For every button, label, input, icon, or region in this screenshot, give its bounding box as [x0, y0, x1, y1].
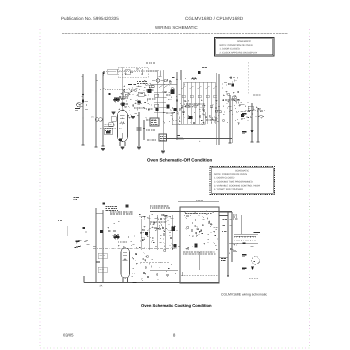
misc cluster mid-left small [144, 80, 151, 86]
footer date 03/05 [63, 333, 74, 338]
fan motor FM2 (dashed circle) [252, 257, 260, 265]
wire x228 vertical [227, 212, 229, 278]
label Bo bottom [242, 254, 247, 256]
wire bus L2 (vertical) [95, 208, 97, 282]
wire x241 vertical [240, 215, 242, 234]
label Eo upper [242, 113, 247, 115]
noise filter body (dark) [108, 93, 110, 95]
control unit interior [182, 211, 218, 276]
wire stub x230 [229, 95, 232, 143]
grill heater box GH1 [98, 253, 107, 259]
cluster verticals [147, 215, 174, 250]
chassis ground triangle 2 (dark) [251, 267, 254, 271]
wire bus E (vertical) [102, 72, 104, 146]
rail tick dark [133, 282, 137, 284]
svg-text:WIRING SCHEMATIC: WIRING SCHEMATIC [155, 26, 198, 31]
title divider rule [62, 33, 288, 35]
label magnetron (grey) [253, 94, 255, 96]
wire bus right (vertical x177) [176, 72, 178, 140]
wire stub top [159, 71, 161, 77]
relay blob bottom D [145, 232, 148, 235]
cooking cluster heavy [107, 214, 179, 251]
svg-text:2. COOKING TIME PROGRAMMED: 2. COOKING TIME PROGRAMMED [214, 181, 253, 184]
relay RY2 box [109, 117, 117, 127]
rail stub left [83, 276, 85, 283]
svg-text:4. 'START' PAD TOUCHED: 4. 'START' PAD TOUCHED [214, 188, 243, 191]
relay contact ladder RY1 [154, 70, 175, 150]
svg-text:a: a [199, 140, 200, 142]
dashed line left-bottom [140, 261, 170, 263]
wire above control box [178, 201, 219, 203]
bottom rail [84, 282, 219, 284]
dense band mid (relays area) [163, 74, 187, 124]
svg-text:2A: 2A [99, 285, 102, 288]
component blob G [156, 108, 159, 111]
component cluster interlock switches [118, 85, 152, 119]
svg-text:CGLMV168E wiring schematic: CGLMV168E wiring schematic [221, 293, 267, 297]
component blob E [148, 89, 152, 93]
wire bus N2 (vertical) [102, 210, 104, 282]
label transformer [254, 231, 261, 233]
component blob H [122, 103, 125, 107]
noise filter squiggle bottom [114, 235, 120, 238]
label row above box [150, 205, 152, 207]
svg-text:03/05: 03/05 [63, 333, 74, 338]
wire bus L (vertical) [82, 74, 84, 145]
svg-text:1. DOOR CLOSED: 1. DOOR CLOSED [220, 47, 240, 50]
fuse F1 with wire [103, 69, 145, 76]
noise filter NF box (dashed) [118, 67, 148, 78]
svg-text:SCHEMATIC: SCHEMATIC [235, 169, 249, 172]
bus feet [82, 144, 85, 146]
footer page number 8 [173, 333, 176, 338]
wire box to right lower [219, 215, 228, 217]
svg-text:NOTE: CONDITION OF OVEN: NOTE: CONDITION OF OVEN [214, 173, 247, 176]
svg-text:SCHEMATIC: SCHEMATIC [237, 40, 251, 43]
page border dots [40, 29, 310, 349]
dashed vertical right [247, 62, 249, 95]
power relay ladder bank [172, 82, 217, 125]
page title WIRING SCHEMATIC [155, 26, 198, 31]
relay blob bottom C [195, 244, 198, 248]
noise filter internals [121, 68, 142, 75]
ground G1 [112, 112, 116, 114]
wire bus x187 upper [180, 70, 182, 80]
plug P1 power cord [75, 102, 88, 111]
label Tu bottom [242, 267, 247, 269]
cord entry marks [74, 197, 76, 199]
transformer T1 secondary box [150, 118, 159, 126]
svg-text:Oven Schematic Cooking Conditi: Oven Schematic Cooking Condition [141, 304, 212, 309]
svg-text:1. DOOR CLOSED: 1. DOOR CLOSED [214, 177, 234, 180]
grill heater box GH2 [98, 267, 107, 273]
relay coil blob D [189, 116, 193, 119]
terminal column labels [221, 215, 237, 261]
schematic note box 1 (off condition) [215, 38, 275, 57]
junction blob L [82, 94, 84, 96]
ground G4 [101, 149, 105, 151]
chassis ground triangle (dark) [250, 130, 253, 134]
svg-text:3. VARIABLE COOKING CONTROL: 3. VARIABLE COOKING CONTROL 'HIGH' [214, 184, 260, 187]
bus bridge [96, 213, 103, 215]
label column left [146, 63, 174, 140]
wire fuse to filter (dashed) [117, 70, 160, 72]
tube feed wire [121, 67, 123, 110]
timer motor box TM [100, 125, 122, 134]
svg-text:Publication No. 5995420335: Publication No. 5995420335 [61, 16, 119, 21]
transformer T1 primary box [159, 134, 167, 141]
HV transformer T2 coil lower [229, 240, 258, 254]
thermal cutout TCO1 [128, 79, 177, 88]
dashes below fan [249, 277, 259, 279]
control unit box [180, 207, 219, 283]
magnetron MG2 tube [121, 248, 130, 282]
relay coil blob C [174, 108, 177, 111]
switch marks lower [150, 263, 178, 280]
relay blob bottom B [174, 244, 177, 248]
component blob F [138, 101, 141, 104]
dark component mark [126, 205, 129, 208]
dark tick bus top [102, 202, 105, 204]
tick column [230, 220, 232, 226]
ground G3 [161, 151, 165, 153]
junction dots top bus [95, 90, 96, 91]
tube side cluster [131, 252, 152, 280]
fan motor FM1 cluster [236, 105, 263, 119]
header publication number [61, 16, 119, 21]
dark blob bus [100, 230, 103, 233]
caption oven schematic off condition [147, 158, 212, 163]
label wiring schematic figure ref [221, 293, 267, 297]
top text cluster 2 [110, 211, 112, 213]
oven lamp coil X1 [91, 116, 102, 121]
wire x141 bottom [140, 219, 142, 250]
wire top y205 [150, 211, 232, 213]
component row top marks [191, 68, 232, 80]
probe wire pair [245, 103, 265, 142]
svg-text:(X): (X) [91, 116, 94, 118]
label 24 [99, 285, 102, 288]
svg-text:2. CLOCK APPEARS ON DISPLAY: 2. CLOCK APPEARS ON DISPLAY [220, 52, 258, 55]
bus tick marks [82, 75, 84, 77]
tick x109 [108, 230, 111, 232]
header model numbers [185, 16, 243, 21]
svg-text:8: 8 [173, 333, 176, 338]
label Eo lower [242, 131, 247, 133]
wire pair crossing [216, 73, 218, 145]
top label cluster [106, 206, 107, 208]
plug P2 power cord [75, 227, 97, 248]
ground G2 [131, 117, 135, 119]
interlock switch SW1 [122, 90, 134, 96]
wire rail right segment [219, 257, 228, 259]
left margin marks [66, 226, 68, 236]
HV transformer T2 coil upper [234, 234, 256, 238]
caption oven schematic cooking condition [141, 304, 212, 309]
chain line main [93, 247, 178, 249]
keypad matrix cluster [183, 99, 249, 125]
wire box to right upper [219, 211, 232, 213]
HV capacitor C1 [137, 112, 142, 149]
magnetron MG1 tube [118, 111, 128, 150]
relay blob bottom A [172, 227, 176, 232]
svg-text:CGLMV168D / CPLMV168D: CGLMV168D / CPLMV168D [185, 16, 243, 21]
svg-text:NOTE: CONDITION OF OVEN: NOTE: CONDITION OF OVEN [220, 44, 253, 47]
interlock switch SW2 [135, 92, 144, 104]
misc cluster top-mid [222, 76, 239, 143]
svg-text:Oven Schematic-Off Condition: Oven Schematic-Off Condition [147, 158, 212, 163]
wire x232 vertical [231, 212, 233, 262]
dark dash mid [96, 261, 100, 263]
schematic note box 2 (cooking condition) [210, 167, 275, 195]
wire bus x219 [218, 74, 220, 145]
HV diode D1 [143, 120, 145, 140]
wire horizontal lower [163, 136, 232, 143]
wire bus N (vertical) [95, 74, 97, 147]
label NF bottom [76, 240, 80, 242]
relay coil blob A [171, 90, 175, 95]
label noise filter [137, 81, 138, 83]
relay coil blob B [167, 105, 170, 109]
